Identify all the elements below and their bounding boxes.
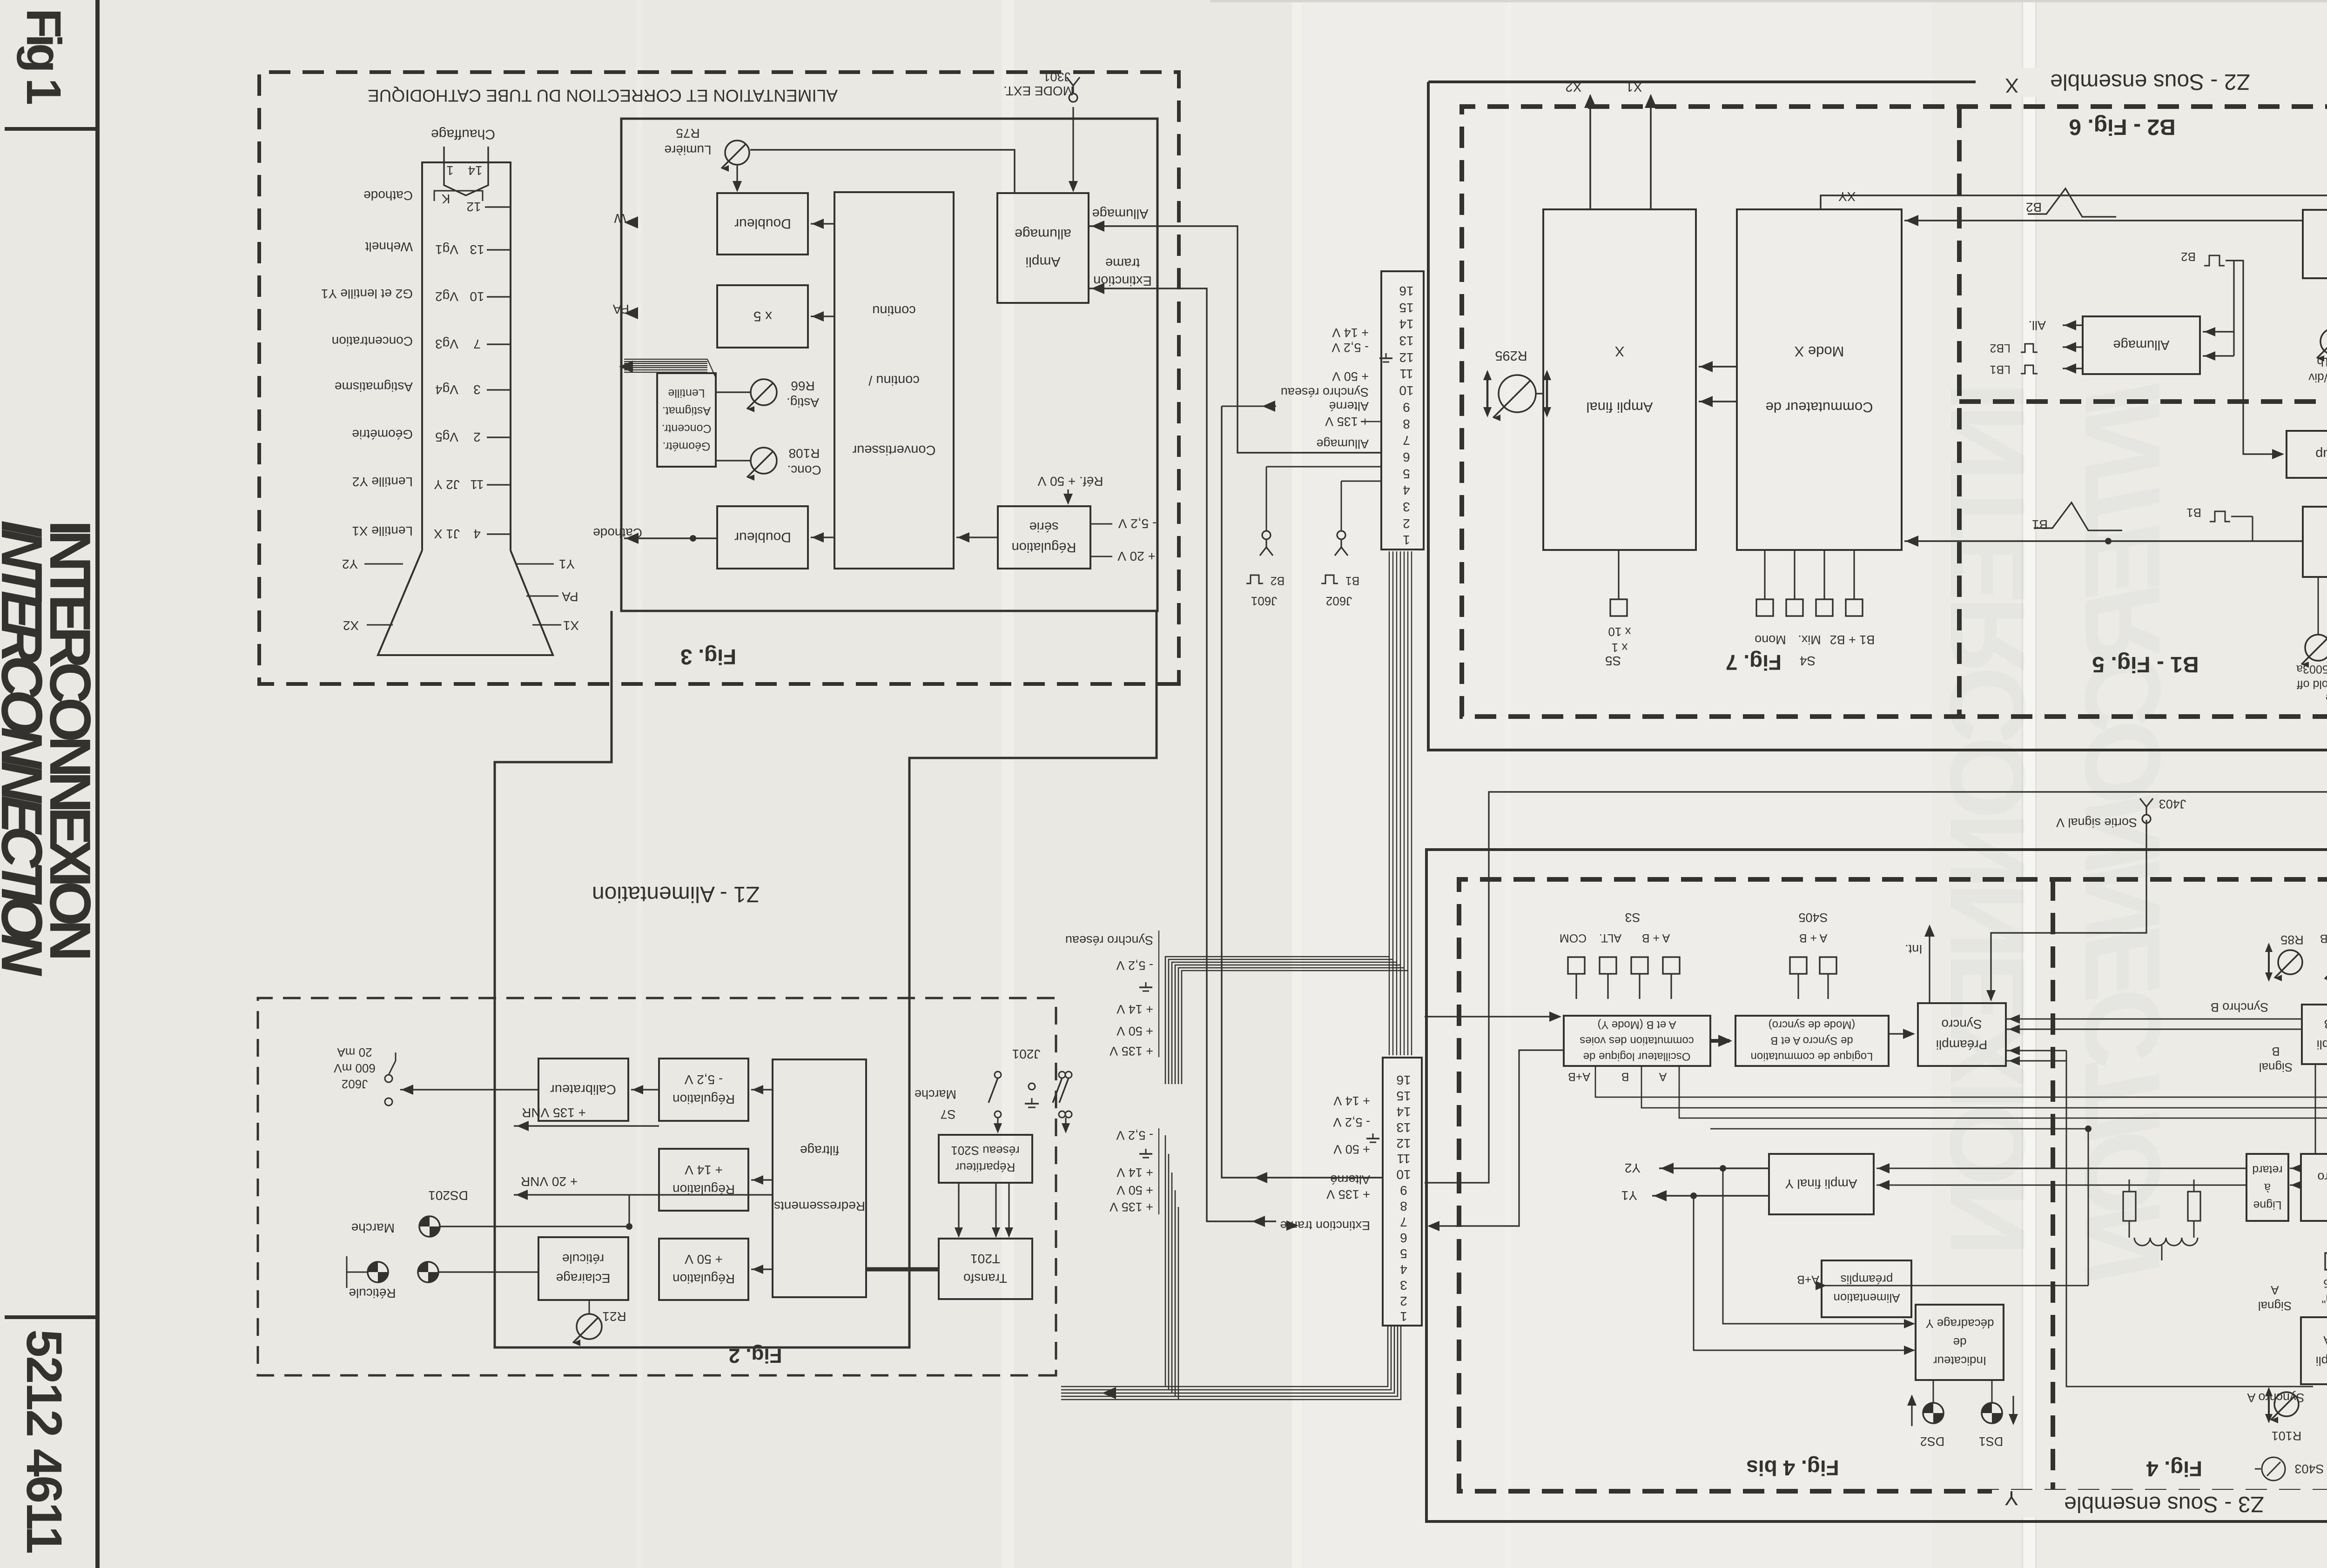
svg-text:Y1: Y1 xyxy=(1621,1188,1637,1203)
svg-text:J602: J602 xyxy=(1326,594,1352,608)
svg-text:Synchro: Synchro xyxy=(2317,1170,2327,1184)
block Ligne a retard xyxy=(2246,1154,2288,1221)
svg-text:Z3 - Sous ensemble: Z3 - Sous ensemble xyxy=(2064,1492,2264,1516)
Z1 upper wire bundle to strips xyxy=(1165,957,1389,1084)
block Preampli Syncro xyxy=(1918,1003,2006,1066)
series regulator block Regulation serie xyxy=(998,506,1090,569)
svg-text:X1: X1 xyxy=(1626,79,1642,94)
svg-text:préamplis: préamplis xyxy=(1841,1273,1893,1287)
connector J601 xyxy=(1266,466,1381,468)
wire Oscillateur to strip pin6 xyxy=(1429,1050,1564,1226)
wire Convertisseur to Doubleur lower xyxy=(811,536,834,538)
Z1 lower wire bundle to lower strip xyxy=(1165,1135,1166,1387)
block Eclairage reticule xyxy=(538,1237,628,1300)
flare plate labels Y1 PA X1 Y2 X2 xyxy=(517,563,554,565)
switch S5 x1 x10 xyxy=(1610,599,1627,616)
svg-text:Préampli: Préampli xyxy=(1936,1038,1987,1052)
svg-text:+ 50 V: + 50 V xyxy=(1332,369,1369,383)
cathode pin K 12 xyxy=(485,206,511,208)
bus line to Alimentation preamplis xyxy=(1710,1128,2088,1130)
svg-text:10: 10 xyxy=(1396,1167,1411,1182)
block Ampli final Y xyxy=(1769,1154,1874,1214)
svg-text:Cathode: Cathode xyxy=(363,188,413,203)
svg-text:9: 9 xyxy=(1403,400,1410,415)
svg-text:R66: R66 xyxy=(791,379,814,393)
wire R108 to lens block xyxy=(716,460,750,461)
svg-text:R85: R85 xyxy=(2280,933,2304,947)
svg-text:X2: X2 xyxy=(1565,79,1581,94)
svg-text:allumage: allumage xyxy=(1015,226,1071,241)
svg-text:Alimentation: Alimentation xyxy=(1833,1291,1900,1305)
dashed divider Fig7 / B-figs xyxy=(1957,107,1962,717)
svg-text:de: de xyxy=(1953,1335,1967,1349)
wire strip to Oscillateur xyxy=(1425,1016,1560,1017)
svg-text:12: 12 xyxy=(466,200,481,214)
wires Preampli Syncro inputs Synchro A xyxy=(2006,1050,2066,1052)
svg-text:7: 7 xyxy=(473,337,481,351)
junction and riser to bus xyxy=(2085,1126,2092,1132)
svg-text:Réf. + 50 V: Réf. + 50 V xyxy=(1037,474,1103,489)
svg-text:Sortie signal V: Sortie signal V xyxy=(2056,816,2137,830)
stub +20 V xyxy=(1090,556,1112,557)
svg-text:Allumage: Allumage xyxy=(1316,437,1369,451)
sawtooth symbol B1 xyxy=(2034,503,2122,530)
sidebar divider above number cell xyxy=(5,1315,98,1319)
svg-text:6: 6 xyxy=(1400,1231,1407,1245)
svg-text:J601: J601 xyxy=(1251,594,1277,608)
CRT tube envelope xyxy=(422,162,511,550)
svg-text:Fig. 2: Fig. 2 xyxy=(729,1344,782,1367)
geometry/concentration/astigmatism lens block xyxy=(657,373,716,467)
svg-text:2: 2 xyxy=(1400,1294,1407,1308)
svg-text:Durée/div: Durée/div xyxy=(2308,371,2327,385)
brace upper bundle xyxy=(1158,931,1159,1057)
svg-text:4: 4 xyxy=(1403,483,1410,497)
svg-text:décadrage Y: décadrage Y xyxy=(1926,1317,1994,1331)
block Regulation +50V xyxy=(659,1239,748,1300)
calibrator output connector J602 xyxy=(400,1089,538,1090)
block Preampli voie A xyxy=(2301,1317,2327,1384)
svg-text:Lentille Y2: Lentille Y2 xyxy=(352,475,413,489)
inter-strip wire bundle xyxy=(1389,551,1390,1055)
svg-text:R75: R75 xyxy=(676,126,699,141)
svg-text:13: 13 xyxy=(1396,1120,1411,1135)
svg-text:Fig. 3: Fig. 3 xyxy=(680,645,736,669)
svg-text:A + B: A + B xyxy=(1799,931,1827,945)
svg-text:B2: B2 xyxy=(2026,200,2042,214)
svg-text:Int.: Int. xyxy=(1905,942,1923,956)
arrow Extinction trame lower xyxy=(1286,1220,1298,1231)
wire R75 to Doubleur xyxy=(736,166,738,191)
block Regulation -5,2V xyxy=(659,1059,748,1121)
svg-text:J1 X: J1 X xyxy=(434,527,460,541)
wire Convertisseur to Doubleur upper xyxy=(811,223,834,224)
svg-text:+ 135 VNR: + 135 VNR xyxy=(522,1106,586,1120)
svg-text:Concentr.: Concentr. xyxy=(661,422,711,435)
pot R85 with arrows xyxy=(2278,950,2302,974)
svg-text:Chauffage: Chauffage xyxy=(431,127,495,142)
block Generateur dent de scie B2 xyxy=(2303,210,2327,278)
svg-text:Lentille X1: Lentille X1 xyxy=(352,524,413,538)
svg-text:Monocoup: Monocoup xyxy=(2315,447,2327,462)
svg-text:Alterné: Alterné xyxy=(1329,399,1369,413)
svg-text:+ 14 V: + 14 V xyxy=(1116,1166,1153,1179)
wires Repartiteur to Transfo xyxy=(958,1183,959,1237)
svg-text:B1: B1 xyxy=(2186,506,2201,520)
svg-text:+ 14 V: + 14 V xyxy=(1333,1094,1370,1108)
potentiometer S501b Duree/div xyxy=(2320,328,2327,355)
svg-text:8: 8 xyxy=(1400,1199,1407,1213)
svg-text:2: 2 xyxy=(473,430,481,444)
svg-text:continu /: continu / xyxy=(868,373,920,388)
svg-text:20 mA: 20 mA xyxy=(337,1045,372,1059)
svg-text:DS1: DS1 xyxy=(1979,1434,2004,1448)
output PA to tube xyxy=(624,307,638,319)
Fig 3 solid frame xyxy=(621,119,1157,611)
block Oscillateur logique de commutation des voies A et B (Mode Y) xyxy=(1564,1016,1710,1066)
svg-text:B2: B2 xyxy=(2181,250,2196,264)
Y2 output xyxy=(1659,1167,1769,1169)
svg-text:Répartiteur: Répartiteur xyxy=(955,1160,1015,1174)
XY wire xyxy=(1821,195,2327,209)
svg-text:réticule: réticule xyxy=(562,1252,604,1266)
svg-text:+ 20 VNR: + 20 VNR xyxy=(521,1174,578,1189)
svg-text:1: 1 xyxy=(1403,533,1410,547)
svg-text:X: X xyxy=(2005,74,2018,97)
svg-text:K: K xyxy=(441,192,450,206)
svg-text:Transfo: Transfo xyxy=(963,1271,1007,1286)
svg-text:Y: Y xyxy=(2004,1487,2018,1509)
svg-text:R101: R101 xyxy=(2272,1429,2302,1443)
connector J301 MODE EXT xyxy=(1067,77,1080,102)
svg-text:13: 13 xyxy=(1399,334,1413,348)
svg-text:Oscillateur logique de: Oscillateur logique de xyxy=(1583,1050,1691,1063)
svg-text:Y2: Y2 xyxy=(1625,1161,1641,1175)
svg-text:voie A: voie A xyxy=(2323,1333,2327,1347)
ground symbol upper strip xyxy=(1385,353,1387,358)
svg-text:12: 12 xyxy=(1396,1136,1411,1151)
svg-text:Conc.: Conc. xyxy=(787,463,821,477)
svg-text:S 405: S 405 xyxy=(2323,1277,2327,1290)
Z3 inner dashed frame xyxy=(1459,879,2327,1491)
arrow down near DS1 xyxy=(2012,1396,2014,1424)
svg-text:Doubleur: Doubleur xyxy=(734,216,791,231)
svg-text:5212 4611: 5212 4611 xyxy=(16,1329,73,1554)
svg-text:trame: trame xyxy=(1105,255,1140,270)
svg-text:Astigmat.: Astigmat. xyxy=(662,404,711,417)
svg-text:Astigmatisme: Astigmatisme xyxy=(335,380,413,394)
svg-text:15: 15 xyxy=(1399,301,1413,315)
svg-text:Régulation: Régulation xyxy=(673,1092,735,1106)
svg-text:+ 135 V: + 135 V xyxy=(1110,1200,1153,1214)
svg-text:Fig 1: Fig 1 xyxy=(16,8,71,105)
svg-text:Y2: Y2 xyxy=(342,557,358,571)
svg-text:Ligne: Ligne xyxy=(2253,1199,2281,1212)
svg-text:Ampli final: Ampli final xyxy=(1587,399,1653,415)
svg-text:Y1: Y1 xyxy=(559,557,575,571)
potentiometer R75 Lumiere xyxy=(725,141,749,165)
svg-text:ALT.: ALT. xyxy=(1599,931,1621,945)
svg-text:J201: J201 xyxy=(1012,1047,1041,1061)
svg-text:Allumage: Allumage xyxy=(2113,337,2170,352)
svg-text:Marche: Marche xyxy=(915,1087,956,1101)
svg-text:+ 20 V: + 20 V xyxy=(1117,549,1156,563)
svg-text:Syncro: Syncro xyxy=(1941,1017,1982,1032)
svg-text:6: 6 xyxy=(1403,450,1410,464)
svg-text:à: à xyxy=(2264,1181,2271,1194)
svg-text:16: 16 xyxy=(1396,1073,1411,1087)
wires Preampli B to Visu Synchro xyxy=(2315,1064,2316,1154)
svg-text:600 mV: 600 mV xyxy=(334,1061,376,1075)
svg-text:Concentration: Concentration xyxy=(332,334,413,348)
svg-text:Astig.: Astig. xyxy=(787,395,819,410)
svg-text:x 10: x 10 xyxy=(1608,625,1631,639)
svg-text:Lumière: Lumière xyxy=(664,143,711,157)
switch row S405 xyxy=(1790,957,1807,974)
svg-text:+ 50 V: + 50 V xyxy=(685,1252,723,1266)
switch row S3 xyxy=(1568,957,1585,974)
Fig 2 dashed frame xyxy=(258,998,1056,1375)
thick arrow Oscillateur to Logique xyxy=(1710,1039,1729,1043)
wires Y outputs down to Indicateur xyxy=(1723,1168,1914,1324)
svg-text:Vg4: Vg4 xyxy=(435,382,458,397)
wire Extinction trame long vertical xyxy=(1089,288,1276,1221)
wire sawtooth B2 to Generateur xyxy=(2100,220,2303,221)
svg-text:3: 3 xyxy=(473,382,481,397)
bus lines A+B / B / A from Oscillateur xyxy=(1595,1066,2327,1139)
svg-text:réseau S201: réseau S201 xyxy=(951,1144,1019,1158)
svg-text:Calibrateur: Calibrateur xyxy=(550,1082,616,1097)
lamps DS2 DS1 xyxy=(1923,1403,1944,1423)
svg-text:Signal: Signal xyxy=(2258,1299,2292,1313)
svg-text:+ 14 V: + 14 V xyxy=(685,1163,723,1177)
svg-text:X1: X1 xyxy=(563,618,579,633)
cathode wire to tube xyxy=(624,537,717,539)
svg-text:7: 7 xyxy=(1403,433,1410,448)
wire Ref into Regulation serie xyxy=(1067,489,1069,503)
wires Ligne a retard to Ampli final Y xyxy=(1876,1168,2246,1169)
svg-text:- 5,2 V: - 5,2 V xyxy=(1116,1128,1153,1142)
svg-text:3: 3 xyxy=(1400,1278,1407,1293)
svg-text:2: 2 xyxy=(1403,516,1410,531)
svg-text:A + B: A + B xyxy=(1642,931,1670,945)
svg-text:Alterné: Alterné xyxy=(1330,1173,1370,1186)
svg-text:COM: COM xyxy=(1560,931,1587,945)
svg-text:Allumage: Allumage xyxy=(1092,206,1149,221)
svg-text:J602: J602 xyxy=(342,1077,368,1091)
pot R5003a Hold off xyxy=(2305,635,2327,661)
svg-text:B1: B1 xyxy=(2032,517,2048,532)
svg-text:Fig. 4: Fig. 4 xyxy=(2146,1457,2203,1481)
svg-text:1: 1 xyxy=(1400,1309,1407,1324)
svg-text:5: 5 xyxy=(1403,467,1410,481)
svg-text:Synchro réseau: Synchro réseau xyxy=(1281,385,1369,399)
svg-text:B1 + B2: B1 + B2 xyxy=(1830,633,1875,647)
svg-text:Fig. 4 bis: Fig. 4 bis xyxy=(1746,1456,1839,1480)
svg-text:1: 1 xyxy=(446,163,454,178)
svg-text:DS2: DS2 xyxy=(1920,1434,1945,1448)
svg-text:" Visu": " Visu" xyxy=(2322,1292,2327,1305)
svg-text:- 5,2 V: - 5,2 V xyxy=(1118,516,1157,531)
wire B2 line into Commutateur xyxy=(1959,220,2100,221)
svg-text:Convertisseur: Convertisseur xyxy=(852,442,935,457)
brace lower bundle xyxy=(1158,1128,1159,1214)
svg-text:All.: All. xyxy=(2028,318,2046,332)
svg-text:+ 135 V: + 135 V xyxy=(1110,1044,1153,1058)
svg-text:R108: R108 xyxy=(789,446,820,461)
svg-text:LB1: LB1 xyxy=(1990,363,2011,376)
upper 16-pin connector strip xyxy=(1381,271,1424,549)
svg-text:5: 5 xyxy=(1400,1246,1407,1261)
connector J602 strip side xyxy=(1341,481,1381,482)
svg-text:- 5,2 V: - 5,2 V xyxy=(1332,341,1369,355)
DC/DC converter block Convertisseur continu/continu xyxy=(834,192,954,569)
svg-text:S4: S4 xyxy=(1800,654,1816,668)
switch S4 mode xyxy=(1756,599,1773,616)
svg-text:INTERCONNEXION: INTERCONNEXION xyxy=(1928,382,2047,1256)
Allumage output arrows All / LB2 / LB1 xyxy=(2063,324,2083,326)
svg-text:10: 10 xyxy=(1399,383,1413,398)
svg-text:Mono: Mono xyxy=(1755,633,1786,647)
svg-text:+ 14 V: + 14 V xyxy=(1332,326,1369,340)
svg-text:7: 7 xyxy=(1400,1215,1407,1229)
wire R66 to lens block xyxy=(716,391,750,393)
pot R101 with arrows xyxy=(2274,1392,2299,1416)
block Preampli voie B xyxy=(2302,1005,2327,1064)
label Z3 - Sous ensemble Y xyxy=(1992,1490,2327,1518)
block Commutateur de Mode X xyxy=(1737,209,1902,550)
svg-text:Mode X: Mode X xyxy=(1794,343,1844,360)
block Repartiteur reseau S201 xyxy=(939,1135,1032,1183)
svg-text:A+B: A+B xyxy=(1568,1070,1590,1083)
multiwire bundle lens block to tube xyxy=(624,359,707,360)
svg-text:W: W xyxy=(614,211,626,226)
reticle lamps xyxy=(368,1262,388,1282)
svg-text:A: A xyxy=(1659,1070,1667,1083)
svg-text:B1: B1 xyxy=(1345,574,1360,587)
svg-text:J403: J403 xyxy=(2159,797,2186,811)
svg-text:14: 14 xyxy=(468,163,482,178)
svg-text:ALIMENTATION ET CORRECTION DU: ALIMENTATION ET CORRECTION DU TUBE CATHO… xyxy=(368,86,838,105)
svg-text:(Mode de syncro): (Mode de syncro) xyxy=(1769,1019,1856,1031)
svg-text:X2: X2 xyxy=(343,618,359,633)
svg-text:S7: S7 xyxy=(940,1107,955,1121)
svg-text:retard: retard xyxy=(2252,1163,2282,1176)
svg-text:commutation des voies: commutation des voies xyxy=(1580,1034,1694,1047)
svg-text:x 5: x 5 xyxy=(753,308,772,324)
svg-text:+ 50 V: + 50 V xyxy=(1116,1183,1153,1197)
svg-text:DS201: DS201 xyxy=(428,1188,468,1203)
connector J403 Sortie signal V xyxy=(2140,798,2153,823)
svg-text:X: X xyxy=(1614,343,1624,360)
dashed enclosure ALIMENTATION ET CORRECTION DU TUBE CATHODIQUE xyxy=(259,72,1179,684)
svg-text:Signal: Signal xyxy=(2259,1060,2293,1074)
svg-text:Commutateur de: Commutateur de xyxy=(1766,399,1873,415)
svg-text:S3: S3 xyxy=(1625,911,1640,925)
svg-text:R295: R295 xyxy=(1495,348,1527,363)
doubler block Doubleur (lower) xyxy=(717,506,808,569)
potentiometer R108 Conc. xyxy=(751,448,777,474)
svg-text:- 5,2 V: - 5,2 V xyxy=(684,1072,723,1087)
block Generateur dent de scie B1 xyxy=(2303,507,2327,577)
svg-text:Régulation: Régulation xyxy=(673,1272,735,1286)
svg-text:Z1 - Alimentation: Z1 - Alimentation xyxy=(592,882,760,906)
arrow up near DS2 xyxy=(1911,1396,1912,1426)
wire Alterne long vertical xyxy=(1222,406,1383,1178)
svg-text:Vg3: Vg3 xyxy=(435,337,458,351)
Y1 output xyxy=(1652,1195,1769,1196)
output W to tube xyxy=(624,216,638,228)
svg-text:PA: PA xyxy=(612,302,629,316)
block Ampli final X xyxy=(1543,209,1696,550)
svg-text:Eclairage: Eclairage xyxy=(556,1271,611,1286)
svg-text:- 5,2 V: - 5,2 V xyxy=(1116,958,1153,972)
feedback wire Ampli allumage to R75 xyxy=(750,150,1015,193)
svg-text:Indicateur: Indicateur xyxy=(1933,1354,1987,1368)
svg-text:11: 11 xyxy=(470,477,484,492)
svg-text:14: 14 xyxy=(1399,317,1413,331)
wire DS201 xyxy=(440,1226,629,1227)
svg-text:A+B: A+B xyxy=(1797,1273,1819,1286)
block Logique de commutation de Syncro A et B (Mode de syncro) xyxy=(1735,1016,1889,1066)
wire B1 sawtooth line to Commutateur xyxy=(2108,540,2303,542)
svg-text:Régulation: Régulation xyxy=(1012,540,1076,555)
svg-text:G2 et lentille Y1: G2 et lentille Y1 xyxy=(321,287,413,301)
block Monocoup xyxy=(2287,431,2327,478)
svg-text:filtrage: filtrage xyxy=(800,1143,839,1158)
svg-text:J2 Y: J2 Y xyxy=(434,477,460,492)
dashed divider Fig4bis / Fig4 xyxy=(2051,879,2055,1491)
potentiometer R66 Astig. xyxy=(751,379,777,405)
lower 16-pin connector strip xyxy=(1383,1058,1422,1326)
svg-text:Fig. 7: Fig. 7 xyxy=(1726,650,1782,675)
lamp DS201 Marche xyxy=(419,1216,440,1237)
block Visu Synchro xyxy=(2301,1154,2327,1221)
svg-text:continu: continu xyxy=(872,303,916,318)
wire gate B2 down to Allumage and Monocoup xyxy=(2226,261,2283,454)
wires Redressements to regulators xyxy=(751,1089,773,1090)
svg-text:14: 14 xyxy=(1396,1105,1411,1119)
gate pulse B2 symbol xyxy=(2204,255,2225,266)
block Redressements filtrage xyxy=(773,1059,866,1297)
svg-text:11: 11 xyxy=(1399,367,1413,381)
svg-text:A et B (Mode Y): A et B (Mode Y) xyxy=(1598,1019,1676,1031)
svg-text:Wehnelt: Wehnelt xyxy=(365,240,413,254)
svg-text:Hold off: Hold off xyxy=(2297,678,2327,691)
svg-text:J301: J301 xyxy=(1043,70,1070,84)
label +20 VNR xyxy=(629,1194,773,1195)
A+B arrow into Alimentation preamplis xyxy=(1825,1285,2088,1287)
svg-text:15: 15 xyxy=(1396,1089,1411,1103)
svg-text:de Syncro A et B: de Syncro A et B xyxy=(1770,1034,1853,1047)
svg-text:4: 4 xyxy=(473,527,481,541)
svg-text:S5: S5 xyxy=(1605,654,1621,668)
wire J403 into Z3 to Preampli Syncro xyxy=(1991,820,2146,1000)
switch S405 Visu xyxy=(2325,1253,2327,1270)
svg-text:Synchro B: Synchro B xyxy=(2211,1000,2269,1014)
label Z2 - Sous ensemble X xyxy=(1987,68,2327,97)
thick wire Transfo to Redressements xyxy=(866,1267,939,1272)
wire Logique to Preampli Syncro xyxy=(1889,1033,1914,1034)
svg-text:16: 16 xyxy=(1399,284,1413,298)
svg-text:+ 14 V: + 14 V xyxy=(1116,1002,1153,1016)
svg-text:Ampli final Y: Ampli final Y xyxy=(1785,1177,1857,1191)
svg-text:A: A xyxy=(2271,1283,2279,1297)
svg-text:R21: R21 xyxy=(602,1309,626,1324)
svg-text:Marche: Marche xyxy=(351,1221,395,1235)
svg-text:+ 50 V: + 50 V xyxy=(1116,1024,1153,1038)
svg-text:B2: B2 xyxy=(1271,574,1285,587)
